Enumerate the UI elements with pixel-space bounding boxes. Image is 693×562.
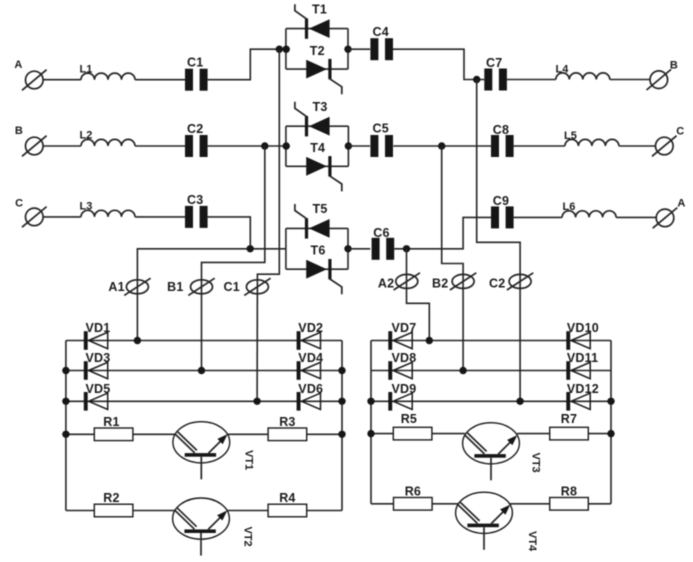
transistor VT2 bbox=[173, 498, 230, 556]
node dots VD9 row bbox=[367, 398, 374, 405]
T5 T6 block left rail bbox=[285, 228, 287, 269]
svg-text:A: A bbox=[14, 59, 22, 71]
diode VD9 bbox=[388, 392, 412, 411]
VD5 VD6 row wire bbox=[66, 400, 342, 402]
svg-text:C7: C7 bbox=[486, 56, 502, 70]
svg-text:A: A bbox=[677, 197, 685, 209]
VD7 VD10 row wire bbox=[371, 340, 611, 342]
wire riser B1 terminal from T3 node bbox=[202, 146, 265, 280]
wire C3 down to mid row bbox=[208, 217, 251, 249]
resistor R6 bbox=[394, 485, 433, 511]
svg-text:T6: T6 bbox=[311, 243, 326, 257]
wire terminal B to L2 bbox=[43, 145, 81, 147]
svg-text:C6: C6 bbox=[373, 226, 389, 240]
terminal A (right output) bbox=[653, 197, 686, 228]
right bank right rail bbox=[610, 341, 612, 504]
svg-text:L2: L2 bbox=[80, 130, 93, 142]
wire C1 to riser bbox=[208, 49, 286, 79]
node dots VD3 row bbox=[62, 367, 69, 374]
T1 T2 block left rail bbox=[285, 29, 287, 70]
node dot A2 on VD7 row bbox=[426, 337, 433, 344]
wire L2 to C2 bbox=[135, 145, 185, 147]
wire C6 to C9 riser bbox=[394, 217, 491, 248]
terminal C1 bbox=[224, 278, 271, 295]
diode VD12 bbox=[566, 392, 590, 411]
svg-text:VT3: VT3 bbox=[530, 453, 542, 473]
resistor R4 bbox=[268, 491, 307, 517]
wire B2 riser from C8 row down to VD8 row bbox=[442, 146, 463, 371]
thyristor T5 bbox=[295, 204, 330, 239]
T6 branch wire bbox=[286, 268, 348, 270]
svg-text:T5: T5 bbox=[313, 202, 328, 216]
wire T1 block to C4 bbox=[348, 48, 370, 50]
svg-text:R7: R7 bbox=[561, 412, 577, 426]
svg-text:L1: L1 bbox=[80, 63, 93, 75]
wire terminal A to L1 bbox=[43, 79, 81, 81]
wire A1 terminal down to VD1 row bbox=[136, 287, 138, 341]
node dots T1 T2 bbox=[276, 46, 283, 53]
capacitor C5 bbox=[370, 122, 393, 157]
resistor R7 bbox=[550, 412, 589, 440]
wire C8 to L5 bbox=[514, 145, 565, 147]
T3 T4 block left rail bbox=[285, 126, 287, 166]
thyristor T6 bbox=[306, 259, 342, 294]
VD9 VD12 row wire bbox=[371, 400, 611, 402]
node dots R5 row bbox=[367, 430, 374, 437]
svg-text:VD1: VD1 bbox=[86, 321, 111, 335]
svg-text:VD11: VD11 bbox=[567, 351, 598, 365]
T1 branch wire bbox=[286, 28, 348, 30]
capacitor C6 bbox=[372, 226, 395, 260]
terminal B (left input) bbox=[15, 125, 47, 156]
wire L5 to terminal C bbox=[619, 145, 656, 147]
junction dot A2 riser bbox=[403, 245, 410, 252]
left bank right rail bbox=[341, 341, 343, 511]
junction dot B2 riser bbox=[438, 142, 445, 149]
wire L4 to terminal B bbox=[610, 79, 650, 81]
svg-text:L3: L3 bbox=[80, 201, 93, 213]
wire A2 riser down with jog to VD7 row bbox=[407, 249, 430, 341]
wire C7 to L4 bbox=[507, 79, 556, 81]
wire T3 block to C5 bbox=[348, 145, 370, 147]
diode VD1 bbox=[84, 331, 108, 350]
wire C1 terminal down to VD5 row bbox=[256, 280, 258, 401]
capacitor C4 bbox=[370, 25, 393, 60]
wire C5 to C8 with B2 tap bbox=[393, 145, 491, 147]
T5 T6 block right rail bbox=[347, 228, 349, 269]
T3 branch wire bbox=[286, 125, 349, 127]
terminal C (left input) bbox=[15, 197, 46, 227]
mid row wire A1 corner to T5 block bbox=[137, 249, 286, 287]
svg-text:A1: A1 bbox=[108, 280, 124, 294]
diode VD3 bbox=[84, 361, 108, 380]
node dots R1 row bbox=[62, 431, 69, 438]
capacitor C1 bbox=[185, 56, 208, 91]
svg-text:C2: C2 bbox=[187, 122, 203, 136]
terminal A2 bbox=[378, 273, 420, 291]
right bank left rail bbox=[370, 341, 372, 504]
capacitor C3 bbox=[185, 193, 208, 228]
terminal C2 bbox=[489, 273, 533, 291]
terminal C (right output) bbox=[652, 125, 684, 156]
svg-text:VD7: VD7 bbox=[392, 321, 417, 335]
svg-text:R2: R2 bbox=[103, 491, 119, 505]
node dots T5 T6 bbox=[247, 245, 254, 252]
svg-text:VT1: VT1 bbox=[243, 450, 255, 470]
VD8 VD11 row wire bbox=[371, 370, 611, 372]
svg-text:C: C bbox=[676, 125, 684, 137]
terminal B (right output) bbox=[647, 59, 678, 90]
svg-text:T2: T2 bbox=[310, 44, 325, 58]
T4 branch wire bbox=[286, 165, 349, 167]
svg-text:B: B bbox=[670, 59, 678, 71]
resistor R1 bbox=[94, 415, 133, 441]
svg-text:VD9: VD9 bbox=[392, 382, 417, 396]
svg-text:C3: C3 bbox=[187, 193, 203, 207]
junction dot C7 bbox=[473, 76, 480, 83]
svg-text:L4: L4 bbox=[556, 64, 570, 76]
terminal A1 bbox=[108, 278, 150, 295]
resistor R3 bbox=[268, 415, 307, 441]
resistor R2 bbox=[94, 491, 133, 517]
wire L1 to C1 bbox=[135, 79, 185, 81]
svg-text:C: C bbox=[15, 197, 23, 209]
diode VD7 bbox=[388, 331, 412, 350]
svg-text:VD8: VD8 bbox=[392, 351, 417, 365]
wire C2 riser from C7 node down to VD9 row bbox=[477, 80, 520, 402]
node dots VD5 row bbox=[62, 398, 69, 405]
svg-text:C8: C8 bbox=[493, 123, 509, 137]
thyristor T2 bbox=[306, 59, 342, 94]
thyristor T3 bbox=[295, 102, 330, 137]
node dot B2 on VD8 row bbox=[459, 367, 466, 374]
inductor L4 bbox=[556, 64, 610, 80]
terminal B2 bbox=[432, 273, 476, 291]
svg-text:VD4: VD4 bbox=[298, 351, 323, 365]
terminal B1 bbox=[167, 278, 215, 295]
wire C4 down to C7 row bbox=[393, 49, 484, 79]
diode VD5 bbox=[84, 392, 108, 411]
svg-text:L5: L5 bbox=[564, 130, 577, 142]
svg-text:C9: C9 bbox=[493, 194, 509, 208]
svg-text:B: B bbox=[15, 125, 23, 137]
svg-text:VD2: VD2 bbox=[298, 321, 323, 335]
node dot A1 on VD1 row bbox=[134, 337, 141, 344]
wire L3 to C3 bbox=[135, 216, 185, 218]
thyristor T1 bbox=[295, 4, 330, 39]
svg-text:R5: R5 bbox=[401, 412, 417, 426]
svg-text:VD5: VD5 bbox=[86, 382, 111, 396]
T3 T4 block right rail bbox=[347, 126, 349, 166]
svg-text:C2: C2 bbox=[489, 276, 505, 290]
svg-text:R4: R4 bbox=[279, 491, 295, 505]
svg-text:B2: B2 bbox=[432, 276, 448, 290]
svg-text:VD3: VD3 bbox=[86, 351, 111, 365]
diode VD8 bbox=[388, 361, 412, 380]
svg-text:R3: R3 bbox=[279, 415, 295, 429]
wire C9 to L6 bbox=[514, 216, 563, 218]
svg-text:VD12: VD12 bbox=[567, 382, 599, 396]
diode VD2 bbox=[297, 331, 321, 350]
R6 R8 row wire bbox=[371, 503, 458, 505]
T1 T2 block right rail bbox=[347, 29, 349, 70]
svg-text:R8: R8 bbox=[561, 485, 577, 499]
inductor L2 bbox=[80, 130, 136, 146]
svg-text:T3: T3 bbox=[313, 100, 328, 114]
svg-text:R1: R1 bbox=[103, 415, 119, 429]
node dots T3 T4 bbox=[261, 142, 268, 149]
T2 branch wire bbox=[286, 68, 348, 70]
svg-text:C5: C5 bbox=[373, 122, 389, 136]
capacitor C7 bbox=[484, 56, 507, 90]
R2 R4 row wire bbox=[66, 510, 175, 512]
diode VD10 bbox=[566, 331, 590, 350]
wire B1 terminal down to VD3 row bbox=[201, 280, 203, 371]
svg-text:T1: T1 bbox=[312, 2, 327, 16]
transistor VT3 bbox=[463, 423, 520, 481]
T5 branch wire bbox=[286, 227, 348, 229]
svg-text:A2: A2 bbox=[378, 276, 394, 290]
wire riser C1 terminal from T1 node bbox=[257, 49, 279, 280]
svg-text:L6: L6 bbox=[563, 201, 576, 213]
diode VD4 bbox=[297, 361, 321, 380]
svg-text:T4: T4 bbox=[310, 141, 325, 155]
R1 R3 row wire bbox=[66, 433, 175, 435]
inductor L3 bbox=[80, 201, 136, 217]
wire L6 to terminal A bbox=[616, 216, 656, 218]
wire C2 to T3 T4 block bbox=[208, 145, 286, 147]
left bank left rail bbox=[65, 341, 67, 511]
diode VD11 bbox=[566, 361, 590, 380]
resistor R8 bbox=[550, 485, 589, 511]
wire T5 block to C6 bbox=[348, 248, 370, 250]
VD3 VD4 row wire bbox=[66, 370, 342, 372]
diode VD6 bbox=[297, 392, 321, 411]
capacitor C9 bbox=[491, 194, 514, 229]
transistor VT1 bbox=[173, 422, 230, 480]
inductor L5 bbox=[564, 130, 619, 146]
capacitor C8 bbox=[491, 123, 514, 157]
svg-text:C1: C1 bbox=[224, 280, 240, 294]
inductor L1 bbox=[80, 63, 136, 79]
resistor R5 bbox=[393, 412, 432, 440]
svg-text:B1: B1 bbox=[167, 280, 183, 294]
inductor L6 bbox=[562, 201, 616, 217]
svg-text:VD6: VD6 bbox=[298, 382, 323, 396]
transistor VT4 bbox=[456, 492, 513, 550]
svg-text:VD10: VD10 bbox=[567, 321, 599, 335]
R5 R7 row wire bbox=[371, 433, 465, 435]
svg-text:C1: C1 bbox=[187, 56, 203, 70]
svg-text:VT4: VT4 bbox=[526, 531, 538, 552]
wire terminal C to L3 bbox=[43, 216, 81, 218]
capacitor C2 bbox=[185, 122, 208, 157]
terminal A (left input) bbox=[14, 59, 46, 90]
thyristor T4 bbox=[306, 156, 342, 191]
svg-text:R6: R6 bbox=[405, 485, 421, 499]
VD1 VD2 row wire bbox=[66, 340, 342, 342]
svg-text:VT2: VT2 bbox=[242, 527, 254, 547]
svg-text:C4: C4 bbox=[373, 25, 389, 39]
